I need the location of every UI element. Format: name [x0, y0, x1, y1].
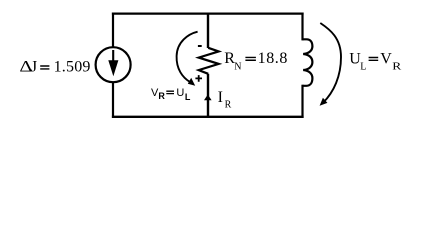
wire: left branch [112, 13, 114, 118]
inductor L (coil, load) [303, 39, 313, 86]
current arrow I_R on middle wire [204, 95, 212, 101]
svg-text:N: N [234, 62, 241, 73]
wire: middle branch bottom segment [207, 74, 209, 117]
wire: bottom side of loop [112, 116, 304, 118]
svg-text:V: V [380, 50, 392, 67]
svg-text:I: I [218, 89, 223, 106]
resistor R_N (zigzag) [199, 48, 219, 74]
svg-text:R: R [392, 60, 401, 72]
wire: right branch top segment [301, 13, 303, 41]
current source ΔJ (circle symbol) [96, 47, 131, 82]
minus polarity mark (top of resistor) [198, 45, 202, 47]
plus polarity mark (bottom of resistor) [195, 75, 202, 82]
svg-text:L: L [360, 62, 366, 73]
wire: top side of loop [112, 12, 304, 14]
wire: right branch bottom segment [301, 85, 303, 118]
voltage reference arc arrow U_L (right of inductor) [320, 23, 341, 103]
svg-text:1.509: 1.509 [54, 59, 91, 76]
svg-text:U: U [176, 87, 184, 99]
wire: middle branch top segment [207, 13, 209, 48]
current source arrow (downward, inside circle) [112, 50, 114, 64]
voltage reference arc arrow V_R (left of resistor) [177, 32, 198, 82]
svg-text:J: J [31, 59, 37, 76]
svg-text:L: L [185, 92, 191, 102]
svg-text:18.8: 18.8 [258, 50, 288, 67]
svg-text:R: R [158, 91, 165, 101]
svg-text:R: R [225, 100, 232, 111]
